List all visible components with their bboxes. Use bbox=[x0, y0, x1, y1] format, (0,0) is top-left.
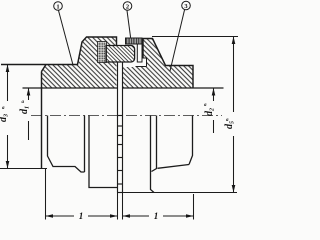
dimension d3 line + arrows bbox=[7, 65, 9, 169]
centerline (coupling axis) bbox=[31, 115, 222, 117]
svg-text:1: 1 bbox=[154, 211, 159, 221]
leader 1 bbox=[59, 11, 74, 66]
dimension d1 line + arrow bbox=[28, 88, 30, 140]
rubber bush (dotted) bbox=[98, 42, 107, 63]
svg-text:d1: d1 bbox=[19, 106, 31, 114]
svg-text:2: 2 bbox=[126, 4, 129, 11]
svg-text:a: a bbox=[22, 100, 25, 105]
elastic laminated strip between flange faces bbox=[118, 62, 123, 193]
bottom edge line of right flange + d5 lower extension bbox=[118, 192, 237, 194]
dimension l (left) bbox=[46, 215, 118, 217]
dimension d5 line + arrows bbox=[233, 37, 235, 193]
svg-text:a: a bbox=[2, 106, 5, 111]
left flange outline bbox=[1, 37, 117, 65]
washer seat step lines bbox=[136, 58, 147, 67]
left flange hatched section bbox=[42, 37, 117, 88]
d3 lower extension line bbox=[0, 168, 47, 170]
left hub left edge bbox=[41, 72, 43, 169]
svg-text:d3: d3 bbox=[0, 114, 10, 122]
leader 2 bbox=[127, 11, 131, 38]
left flange chamfer bbox=[42, 65, 47, 72]
right hub lower half (outside view) bbox=[151, 116, 193, 193]
pin (hatched capsule) bbox=[106, 46, 135, 63]
balloon 2 bbox=[123, 2, 132, 11]
right flange outline bbox=[143, 39, 193, 89]
svg-text:1: 1 bbox=[56, 4, 59, 11]
bottom extension lines bbox=[46, 169, 194, 220]
right flange hatched section bbox=[123, 39, 194, 89]
svg-text:a: a bbox=[204, 103, 207, 108]
washer (dished retaining washer) bbox=[126, 38, 143, 44]
svg-text:d2: d2 bbox=[204, 108, 216, 116]
balloon 3 bbox=[182, 1, 191, 10]
dimension l (right) bbox=[123, 215, 194, 217]
leader 3 bbox=[170, 10, 185, 71]
svg-text:1: 1 bbox=[79, 211, 84, 221]
left hub lower half (outside view) bbox=[48, 116, 118, 188]
right bore line + d2 extension bbox=[123, 87, 224, 89]
dimension d2 line + arrow bbox=[213, 88, 215, 133]
left bore line (with d1 extension) bbox=[23, 87, 118, 89]
balloon 1 bbox=[54, 2, 63, 11]
d5 upper extension line bbox=[152, 36, 238, 38]
